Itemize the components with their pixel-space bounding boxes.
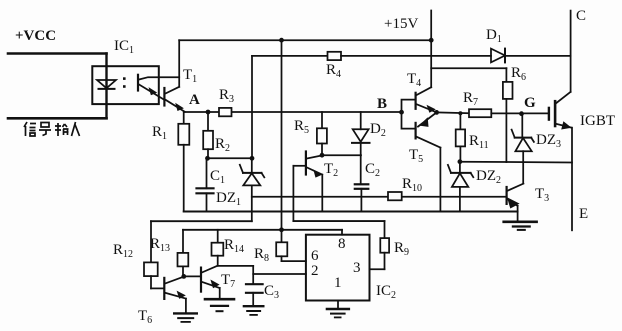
svg-text:T1: T1	[183, 67, 197, 85]
wire B stubs	[402, 100, 415, 129]
svg-text:2: 2	[311, 263, 319, 279]
wire pin1 ground	[337, 301, 339, 309]
resistor R12	[150, 221, 152, 262]
T4 emitter arrow	[427, 105, 436, 113]
svg-text:T4: T4	[407, 71, 421, 89]
node A	[206, 110, 211, 115]
resistor R2	[207, 112, 209, 131]
wire +VCC input top	[8, 52, 107, 55]
svg-text:R5: R5	[294, 118, 309, 136]
svg-text:+15V: +15V	[384, 16, 418, 32]
label signal input (hand-drawn CJK)	[24, 122, 80, 136]
transistor T2	[305, 152, 307, 175]
T6 emitter arrow	[177, 291, 186, 299]
svg-text:R2: R2	[215, 136, 230, 154]
resistor R10	[388, 192, 402, 200]
transistor T7	[200, 268, 202, 292]
wire pin2 line	[253, 273, 306, 275]
wire y158	[208, 157, 253, 159]
T5 emitter arrow	[419, 117, 428, 127]
svg-text:C3: C3	[264, 283, 279, 301]
node R4 corner / DZ1 top	[250, 156, 255, 161]
zener DZ2	[451, 172, 471, 174]
resistor R14	[217, 230, 219, 243]
resistor R4	[328, 52, 342, 60]
svg-text:T3: T3	[535, 186, 549, 204]
transistor T4	[415, 93, 417, 109]
wire E line	[571, 128, 573, 231]
wire R6 branch	[431, 67, 506, 69]
T2 emitter arrow	[313, 170, 322, 178]
wire T2 emitter riser	[321, 175, 323, 212]
svg-text:C2: C2	[365, 161, 380, 179]
wire +15V vertical	[430, 11, 432, 88]
svg-text:1: 1	[334, 275, 342, 291]
svg-text:3: 3	[353, 260, 361, 276]
capacitor C1	[206, 158, 208, 188]
node T4/T5 emitters	[434, 110, 439, 115]
optocoupler IC1 box	[92, 66, 159, 104]
resistor R13	[182, 230, 184, 253]
wire A-B line	[185, 111, 402, 113]
ground C3	[244, 305, 263, 307]
wire line2b	[293, 220, 384, 222]
wire R7 gate line	[437, 111, 469, 114]
svg-text:R7: R7	[463, 90, 478, 108]
resistor R9	[384, 221, 386, 238]
svg-text:R10: R10	[402, 176, 422, 194]
node R5/T2	[320, 153, 325, 158]
ground T6	[174, 312, 197, 314]
svg-text:T7: T7	[221, 272, 235, 290]
svg-text:C: C	[576, 8, 586, 24]
top rail	[179, 39, 431, 41]
svg-text:R14: R14	[224, 237, 244, 255]
wire T2 base riser	[292, 166, 294, 221]
svg-text:DZ1: DZ1	[216, 190, 241, 208]
diode D2	[360, 112, 362, 129]
svg-text:R1: R1	[152, 124, 167, 142]
svg-text:R12: R12	[113, 242, 133, 260]
svg-text:IC2: IC2	[376, 283, 396, 301]
svg-text:R6: R6	[511, 65, 526, 83]
phototransistor of IC1	[137, 75, 139, 91]
node T6 collector / T7 base	[181, 274, 186, 279]
transistor T3	[508, 184, 524, 191]
wire R4/D1 supply line	[252, 55, 328, 57]
node +15V	[429, 38, 434, 43]
svg-text:R3: R3	[219, 87, 234, 105]
wire line2a	[151, 220, 252, 222]
node R11 top	[458, 111, 462, 115]
node R2/C1	[205, 156, 210, 161]
resistor R6	[505, 68, 507, 82]
T7 emitter arrow	[210, 280, 219, 289]
resistor R11	[459, 113, 461, 129]
zener DZ3	[521, 114, 523, 138]
wire x252 vertical	[251, 56, 253, 158]
wire pin8 riser	[341, 230, 343, 235]
LED diode of IC1	[97, 80, 116, 88]
optocoupler colon dots	[123, 77, 126, 80]
svg-text:D2: D2	[370, 121, 386, 139]
svg-text:IC1: IC1	[114, 38, 134, 56]
node B	[399, 110, 404, 115]
wire line3	[183, 229, 342, 231]
resistor R5	[321, 112, 323, 128]
svg-text:R11: R11	[469, 133, 489, 151]
svg-text:T5: T5	[409, 147, 423, 165]
svg-text:R13: R13	[150, 236, 170, 254]
svg-text:R9: R9	[394, 240, 409, 258]
resistor R3	[219, 108, 232, 116]
wire ground rail line1	[184, 211, 518, 213]
transistor T6	[163, 278, 165, 299]
svg-text:R8: R8	[254, 246, 269, 264]
wire LED vertical	[105, 54, 107, 119]
svg-text:T6: T6	[138, 308, 152, 326]
svg-text:R4: R4	[326, 62, 341, 80]
wire signal input bottom	[8, 117, 107, 120]
svg-text:IGBT: IGBT	[580, 113, 615, 129]
node G	[519, 111, 524, 116]
diode D1	[491, 49, 505, 63]
svg-text:+VCC: +VCC	[15, 28, 56, 44]
IC2 box	[306, 235, 370, 301]
svg-text:A: A	[189, 92, 200, 108]
zener DZ1	[243, 172, 262, 174]
svg-text:B: B	[377, 96, 387, 112]
svg-text:T2: T2	[324, 161, 338, 179]
svg-text:DZ3: DZ3	[536, 132, 561, 150]
T1 emitter arrow	[175, 103, 184, 111]
wire y162 line	[460, 161, 572, 164]
svg-text:C1: C1	[210, 168, 225, 186]
node R8 top	[279, 227, 284, 232]
IGBT symbol	[548, 108, 550, 120]
T3 emitter arrow	[507, 197, 520, 208]
resistor R8	[281, 230, 283, 243]
svg-text:8: 8	[338, 236, 346, 252]
node R11/DZ2	[458, 159, 463, 164]
wire long vertical from top rail to bottom	[281, 40, 283, 230]
resistor R1	[183, 112, 185, 124]
node top rail	[279, 38, 284, 43]
svg-text:D1: D1	[486, 27, 502, 45]
capacitor C3	[246, 283, 263, 285]
svg-text:E: E	[579, 206, 588, 222]
wire base line y196.7	[252, 196, 506, 198]
svg-text:6: 6	[311, 248, 319, 264]
ground T7	[205, 298, 234, 301]
transistor T1	[163, 88, 165, 106]
ground T3	[504, 221, 537, 224]
capacitor C2	[355, 183, 369, 185]
svg-text:G: G	[524, 95, 536, 111]
phototransistor emitter arrow	[149, 87, 158, 95]
wire T7 collector to C3	[218, 265, 254, 267]
resistor R7	[469, 109, 491, 117]
transistor T5	[415, 123, 417, 138]
wire T2 collector to C2 top	[322, 154, 361, 156]
IGBT emitter arrow	[561, 121, 571, 129]
svg-text:DZ2: DZ2	[476, 168, 501, 186]
